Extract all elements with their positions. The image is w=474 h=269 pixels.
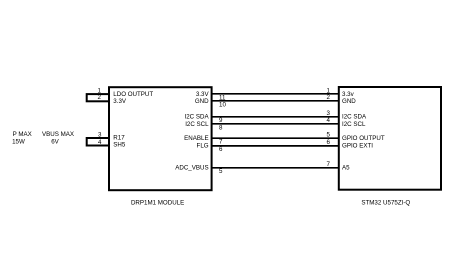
svg-text:I2C SDA: I2C SDA xyxy=(185,114,210,121)
svg-text:8: 8 xyxy=(219,124,223,131)
svg-text:R17: R17 xyxy=(113,134,125,141)
svg-text:4: 4 xyxy=(98,139,102,146)
svg-text:7: 7 xyxy=(327,161,331,168)
svg-text:FLG: FLG xyxy=(197,143,209,150)
svg-text:15W: 15W xyxy=(12,138,25,145)
svg-text:DRP1M1 MODULE: DRP1M1 MODULE xyxy=(131,199,184,206)
svg-text:A5: A5 xyxy=(342,165,350,172)
svg-text:5: 5 xyxy=(327,132,331,139)
svg-text:VBUS MAX: VBUS MAX xyxy=(42,131,74,138)
svg-text:GPIO OUTPUT: GPIO OUTPUT xyxy=(342,135,385,142)
svg-text:3.3V: 3.3V xyxy=(113,98,127,105)
svg-text:9: 9 xyxy=(219,117,223,124)
svg-text:STM32 U575ZI-Q: STM32 U575ZI-Q xyxy=(361,200,410,207)
svg-text:6: 6 xyxy=(219,146,223,153)
svg-text:4: 4 xyxy=(327,117,331,124)
svg-text:GPIO EXTI: GPIO EXTI xyxy=(342,143,373,150)
svg-text:3: 3 xyxy=(327,110,331,117)
svg-text:I2C SCL: I2C SCL xyxy=(185,121,209,128)
svg-text:6: 6 xyxy=(327,139,331,146)
svg-text:10: 10 xyxy=(219,101,226,108)
svg-text:I2C SCL: I2C SCL xyxy=(342,121,366,128)
svg-text:ADC_VBUS: ADC_VBUS xyxy=(175,165,208,172)
svg-text:2: 2 xyxy=(98,94,102,101)
svg-text:3: 3 xyxy=(98,132,102,139)
svg-text:ENABLE: ENABLE xyxy=(184,135,208,142)
svg-text:GND: GND xyxy=(342,98,356,105)
svg-text:2: 2 xyxy=(327,94,331,101)
svg-text:6V: 6V xyxy=(51,138,59,145)
svg-text:I2C SDA: I2C SDA xyxy=(342,114,367,121)
svg-text:P MAX: P MAX xyxy=(13,131,32,138)
svg-text:5: 5 xyxy=(219,168,223,175)
svg-text:7: 7 xyxy=(219,139,223,146)
svg-text:SH5: SH5 xyxy=(113,142,126,149)
svg-text:GND: GND xyxy=(195,98,209,105)
